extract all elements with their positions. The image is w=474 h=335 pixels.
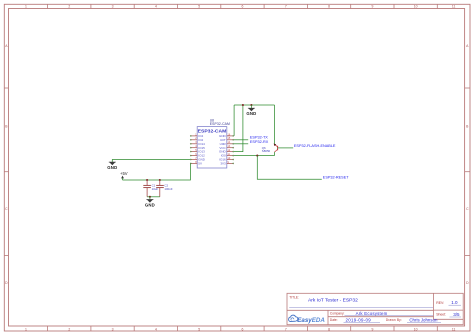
svg-text:9: 9	[371, 327, 373, 331]
svg-text:REV:: REV:	[436, 301, 444, 305]
svg-text:ESP32-CAM: ESP32-CAM	[210, 122, 230, 126]
wire: cap bottom rail	[147, 196, 160, 198]
svg-text:Date:: Date:	[330, 318, 338, 322]
svg-text:Company:: Company:	[330, 312, 345, 316]
svg-text:11: 11	[452, 5, 456, 9]
svg-text:5V: 5V	[198, 162, 202, 166]
ground symbol top	[246, 105, 256, 116]
ground symbol bottom	[145, 197, 155, 208]
wire: IO0 to emitter	[234, 155, 275, 157]
svg-text:7: 7	[285, 327, 287, 331]
svg-text:7: 7	[285, 5, 287, 9]
svg-text:1: 1	[25, 327, 27, 331]
svg-text:8: 8	[328, 327, 330, 331]
IC U8 ESP32-CAM body	[197, 118, 230, 168]
svg-text:Chris Johnson: Chris Johnson	[409, 318, 438, 323]
svg-text:3V3: 3V3	[220, 162, 226, 166]
wire: reset branch down and right	[257, 156, 322, 180]
junction dot C2	[159, 179, 161, 181]
svg-text:11: 11	[452, 327, 456, 331]
wire: left GND pin7	[112, 160, 190, 162]
junction dot on rail	[242, 104, 244, 106]
junction dot on rail at GND stem	[250, 104, 252, 106]
svg-text:3: 3	[112, 327, 114, 331]
junction dot bottom rail	[149, 196, 151, 198]
svg-text:6: 6	[242, 327, 244, 331]
IC left pins	[190, 136, 197, 164]
wire: U0R to ESP32-RX	[234, 143, 249, 145]
svg-text:TITLE:: TITLE:	[289, 296, 299, 300]
junction dot IO0 node	[256, 155, 258, 157]
svg-text:ESP32-FLASH-ENABLE: ESP32-FLASH-ENABLE	[294, 144, 336, 148]
svg-text:10: 10	[414, 5, 418, 9]
IC right pins	[227, 136, 234, 164]
capacitor C2	[156, 180, 173, 197]
wire: pin12 GND up to rail	[234, 105, 243, 152]
junction dot C1	[146, 179, 148, 181]
svg-text:1: 1	[25, 5, 27, 9]
IC right pin names	[219, 134, 227, 166]
svg-text:EasyEDA: EasyEDA	[297, 317, 325, 324]
svg-text:2: 2	[68, 327, 70, 331]
svg-text:2: 2	[68, 5, 70, 9]
svg-text:GND: GND	[246, 111, 256, 116]
svg-text:GND: GND	[107, 165, 117, 170]
svg-text:8: 8	[328, 5, 330, 9]
wire: +5V rail to pin8	[123, 163, 191, 180]
IC pin tip circles	[190, 135, 234, 164]
svg-text:4: 4	[155, 327, 157, 331]
IC left pin names	[198, 134, 206, 166]
svg-text:3/5: 3/5	[453, 312, 460, 317]
svg-text:Ark IoT Tester - ESP32: Ark IoT Tester - ESP32	[308, 298, 358, 304]
svg-text:10: 10	[414, 327, 418, 331]
capacitor C1	[143, 180, 158, 197]
svg-text:Ark Ecosystem: Ark Ecosystem	[356, 311, 388, 316]
svg-text:100nF: 100nF	[164, 187, 172, 191]
wire: top GND rail	[234, 104, 274, 106]
svg-text:S8050: S8050	[262, 149, 271, 153]
wire: U0T to ESP32-TX	[234, 139, 249, 141]
wire: pin16 GND up to rail	[233, 105, 235, 136]
svg-text:Drawn By:: Drawn By:	[386, 318, 402, 322]
svg-text:4: 4	[155, 5, 157, 9]
svg-text:6: 6	[242, 5, 244, 9]
svg-text:+5V: +5V	[120, 171, 128, 176]
svg-text:ESP32-RX: ESP32-RX	[250, 140, 269, 144]
svg-text:9: 9	[371, 5, 373, 9]
wire: collector drop from rail	[274, 105, 276, 144]
svg-text:3: 3	[112, 5, 114, 9]
transistor Q6	[262, 144, 293, 156]
ground symbol left	[107, 162, 117, 170]
IC left pin numbers	[195, 133, 197, 164]
EasyEDA logo	[289, 315, 326, 324]
svg-text:ESP32-RESET: ESP32-RESET	[323, 176, 349, 180]
svg-text:Sheet:: Sheet:	[436, 313, 446, 317]
svg-text:5: 5	[198, 5, 200, 9]
svg-text:1.0: 1.0	[451, 300, 458, 305]
power +5V symbol	[120, 171, 128, 180]
IC right pin numbers	[228, 133, 231, 164]
svg-text:2019-09-09: 2019-09-09	[346, 317, 372, 322]
svg-text:ESP32-CAM: ESP32-CAM	[198, 129, 227, 134]
svg-text:5: 5	[198, 327, 200, 331]
svg-text:GND: GND	[145, 202, 155, 207]
